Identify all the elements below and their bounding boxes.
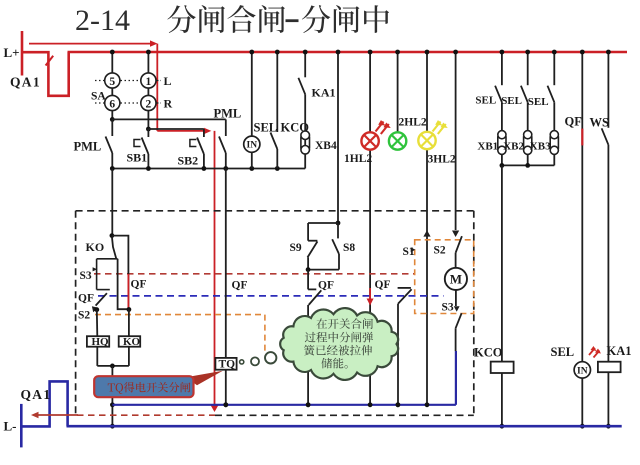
blue return wire (motor branch) — [455, 351, 457, 405]
motor M — [445, 268, 467, 290]
connector XB3 — [550, 131, 558, 139]
svg-text:2-14: 2-14 — [75, 4, 130, 37]
svg-text:3HL2: 3HL2 — [428, 154, 456, 166]
svg-text:QA1: QA1 — [10, 75, 41, 90]
contact SEL 3 — [553, 53, 555, 85]
cloud text — [316, 318, 373, 329]
signal lamp SEL (IN) — [251, 53, 253, 136]
svg-text:IN: IN — [247, 141, 258, 151]
svg-text:QF: QF — [78, 293, 94, 305]
callout cloud (note) — [280, 308, 398, 380]
wire PML-left down into box — [111, 169, 113, 236]
contact SEL 2 — [527, 53, 529, 85]
svg-text:TQ: TQ — [219, 358, 236, 370]
contact QF (S9 branch) — [307, 270, 309, 290]
contact KO — [112, 237, 116, 259]
svg-text:S3: S3 — [442, 302, 454, 314]
controller switch SA contact 5 — [111, 53, 113, 73]
disconnect switch QA1 (top) — [22, 52, 69, 96]
L+ bus — [68, 51, 628, 54]
limit switch S3 linkage — [97, 258, 118, 260]
wire to SB2 — [148, 128, 204, 130]
contact KCO — [276, 53, 278, 132]
svg-text:QF: QF — [318, 280, 334, 292]
svg-text:M: M — [450, 272, 462, 287]
pushbutton SB1 — [147, 129, 149, 137]
contact PML (left) — [111, 119, 113, 136]
svg-text:S8: S8 — [343, 242, 355, 254]
red current-path vertical to SB2 — [156, 44, 158, 131]
svg-text:L-: L- — [4, 419, 17, 434]
limit switch S2 (motor) — [452, 231, 459, 238]
XB join rail — [502, 164, 554, 166]
return flow arrow (red dashed) — [77, 414, 215, 416]
svg-text:SEL: SEL — [254, 121, 278, 135]
limit switch S9 — [307, 223, 309, 241]
disconnect switch QA1 (bottom) — [21, 381, 67, 426]
L+ terminal — [21, 31, 24, 76]
svg-text:1: 1 — [146, 76, 152, 88]
svg-text:WS: WS — [590, 116, 610, 130]
svg-text:S2: S2 — [78, 310, 90, 322]
wire to PML feed rail — [112, 118, 226, 120]
svg-text:SEL: SEL — [501, 95, 522, 107]
svg-text:HQ: HQ — [92, 336, 110, 348]
dashed line (blue) QF row — [98, 295, 444, 297]
svg-text:QF: QF — [375, 279, 391, 291]
lamp 1HL2 (red) — [369, 53, 371, 132]
SA contact 6 — [111, 88, 113, 95]
svg-text:6: 6 — [109, 98, 115, 110]
wire S2 column from bus — [455, 53, 457, 230]
limit switch S8 — [337, 223, 339, 238]
dashed line (red) S3 row — [94, 273, 415, 275]
svg-text:XB3: XB3 — [530, 141, 551, 153]
connector XB2 — [524, 131, 532, 139]
svg-text:S9: S9 — [290, 242, 302, 254]
travel switch S2 — [92, 306, 98, 312]
dashed enclosure (mechanism box) — [76, 210, 474, 212]
coil HQ — [87, 336, 109, 347]
coil outputs join — [96, 347, 98, 366]
wire to S9/S8 — [337, 53, 339, 223]
wire S9 branch — [308, 222, 338, 224]
svg-text:SB1: SB1 — [127, 151, 148, 165]
svg-text:SEL: SEL — [551, 345, 575, 359]
lamp 3HL2 (yellow) — [426, 53, 428, 132]
svg-text:QA1: QA1 — [21, 387, 52, 402]
red current-path arrow (top) — [29, 43, 151, 45]
wire SA-6 down — [111, 111, 113, 120]
svg-text:5: 5 — [109, 76, 115, 88]
contact QF (left) — [96, 293, 107, 305]
wire SA-2 down — [147, 111, 149, 129]
contact QF (right, closed) — [581, 53, 583, 362]
signal lamp SEL (IN) bottom — [574, 362, 590, 378]
S9/S8 join — [308, 269, 339, 271]
svg-text:QF: QF — [131, 279, 147, 291]
svg-text:SB2: SB2 — [178, 154, 199, 168]
SA contact 1 — [147, 53, 149, 73]
dashed line (orange) S2 row — [95, 314, 265, 316]
flow arrow up (3HL2 column) — [423, 230, 430, 236]
wire PML-right down to TQ — [225, 169, 227, 358]
svg-text:2HL2: 2HL2 — [399, 117, 427, 129]
coil KCO — [491, 362, 514, 373]
svg-text:QF: QF — [565, 115, 583, 129]
svg-text:KO: KO — [86, 240, 105, 254]
bus junction dots — [110, 50, 115, 55]
connector XB4 — [301, 131, 310, 140]
SA contact 2 — [147, 88, 149, 95]
contact QF (2HL2 column) — [398, 287, 411, 289]
coil KO — [128, 310, 130, 337]
svg-text:XB4: XB4 — [315, 140, 337, 152]
bypass branch QF (parallel) — [112, 236, 128, 310]
L- terminal — [20, 404, 23, 448]
lamp 2HL2 (green) — [397, 53, 399, 132]
svg-text:SEL: SEL — [475, 95, 496, 107]
svg-text:2: 2 — [146, 98, 152, 110]
svg-text:IN: IN — [577, 366, 588, 376]
svg-text:1HL2: 1HL2 — [344, 153, 372, 165]
svg-text:KA1: KA1 — [312, 86, 336, 100]
coil KA1 — [598, 362, 621, 373]
svg-text:KCO: KCO — [474, 346, 503, 360]
callout pointer — [186, 371, 223, 385]
thought bubbles — [240, 360, 244, 364]
svg-text:XB2: XB2 — [503, 141, 524, 153]
blue collector wire — [112, 404, 456, 406]
SA linkage dotted lines — [95, 80, 104, 82]
svg-text:L+: L+ — [4, 45, 20, 60]
red current-path down to TQ — [214, 131, 216, 406]
wire to L- bus — [111, 366, 113, 426]
linkage jog wire — [118, 259, 129, 309]
svg-text:QF: QF — [232, 280, 248, 292]
svg-text:SEL: SEL — [528, 96, 549, 108]
contact PML (right) — [225, 119, 227, 136]
svg-text:S1: S1 — [403, 246, 415, 258]
svg-text:PML: PML — [74, 140, 102, 154]
limit switch S3 (motor) — [455, 290, 457, 306]
trip coil TQ — [215, 358, 236, 370]
wire to KCO coil — [501, 165, 503, 361]
svg-text:KA1: KA1 — [607, 344, 632, 358]
red flow arrow on 1HL2 column — [369, 288, 371, 300]
contact WS — [607, 53, 609, 128]
contact KA1 — [304, 53, 306, 77]
callout box TQ energized — [94, 376, 193, 397]
svg-text:SA: SA — [91, 91, 106, 103]
dashed box (orange) motor group — [415, 240, 474, 314]
svg-text:L: L — [164, 74, 172, 88]
svg-text:R: R — [164, 97, 173, 111]
svg-text:S2: S2 — [434, 245, 446, 257]
svg-text:XB1: XB1 — [477, 140, 498, 152]
svg-text:KO: KO — [123, 336, 141, 348]
pushbutton SB2 — [203, 129, 205, 137]
L- bus — [67, 425, 622, 428]
svg-text:S3: S3 — [80, 270, 92, 282]
connector XB1 — [498, 131, 506, 139]
junction rail y168 — [112, 168, 305, 170]
svg-text:PML: PML — [214, 107, 242, 121]
contact SEL 1 — [501, 53, 503, 85]
